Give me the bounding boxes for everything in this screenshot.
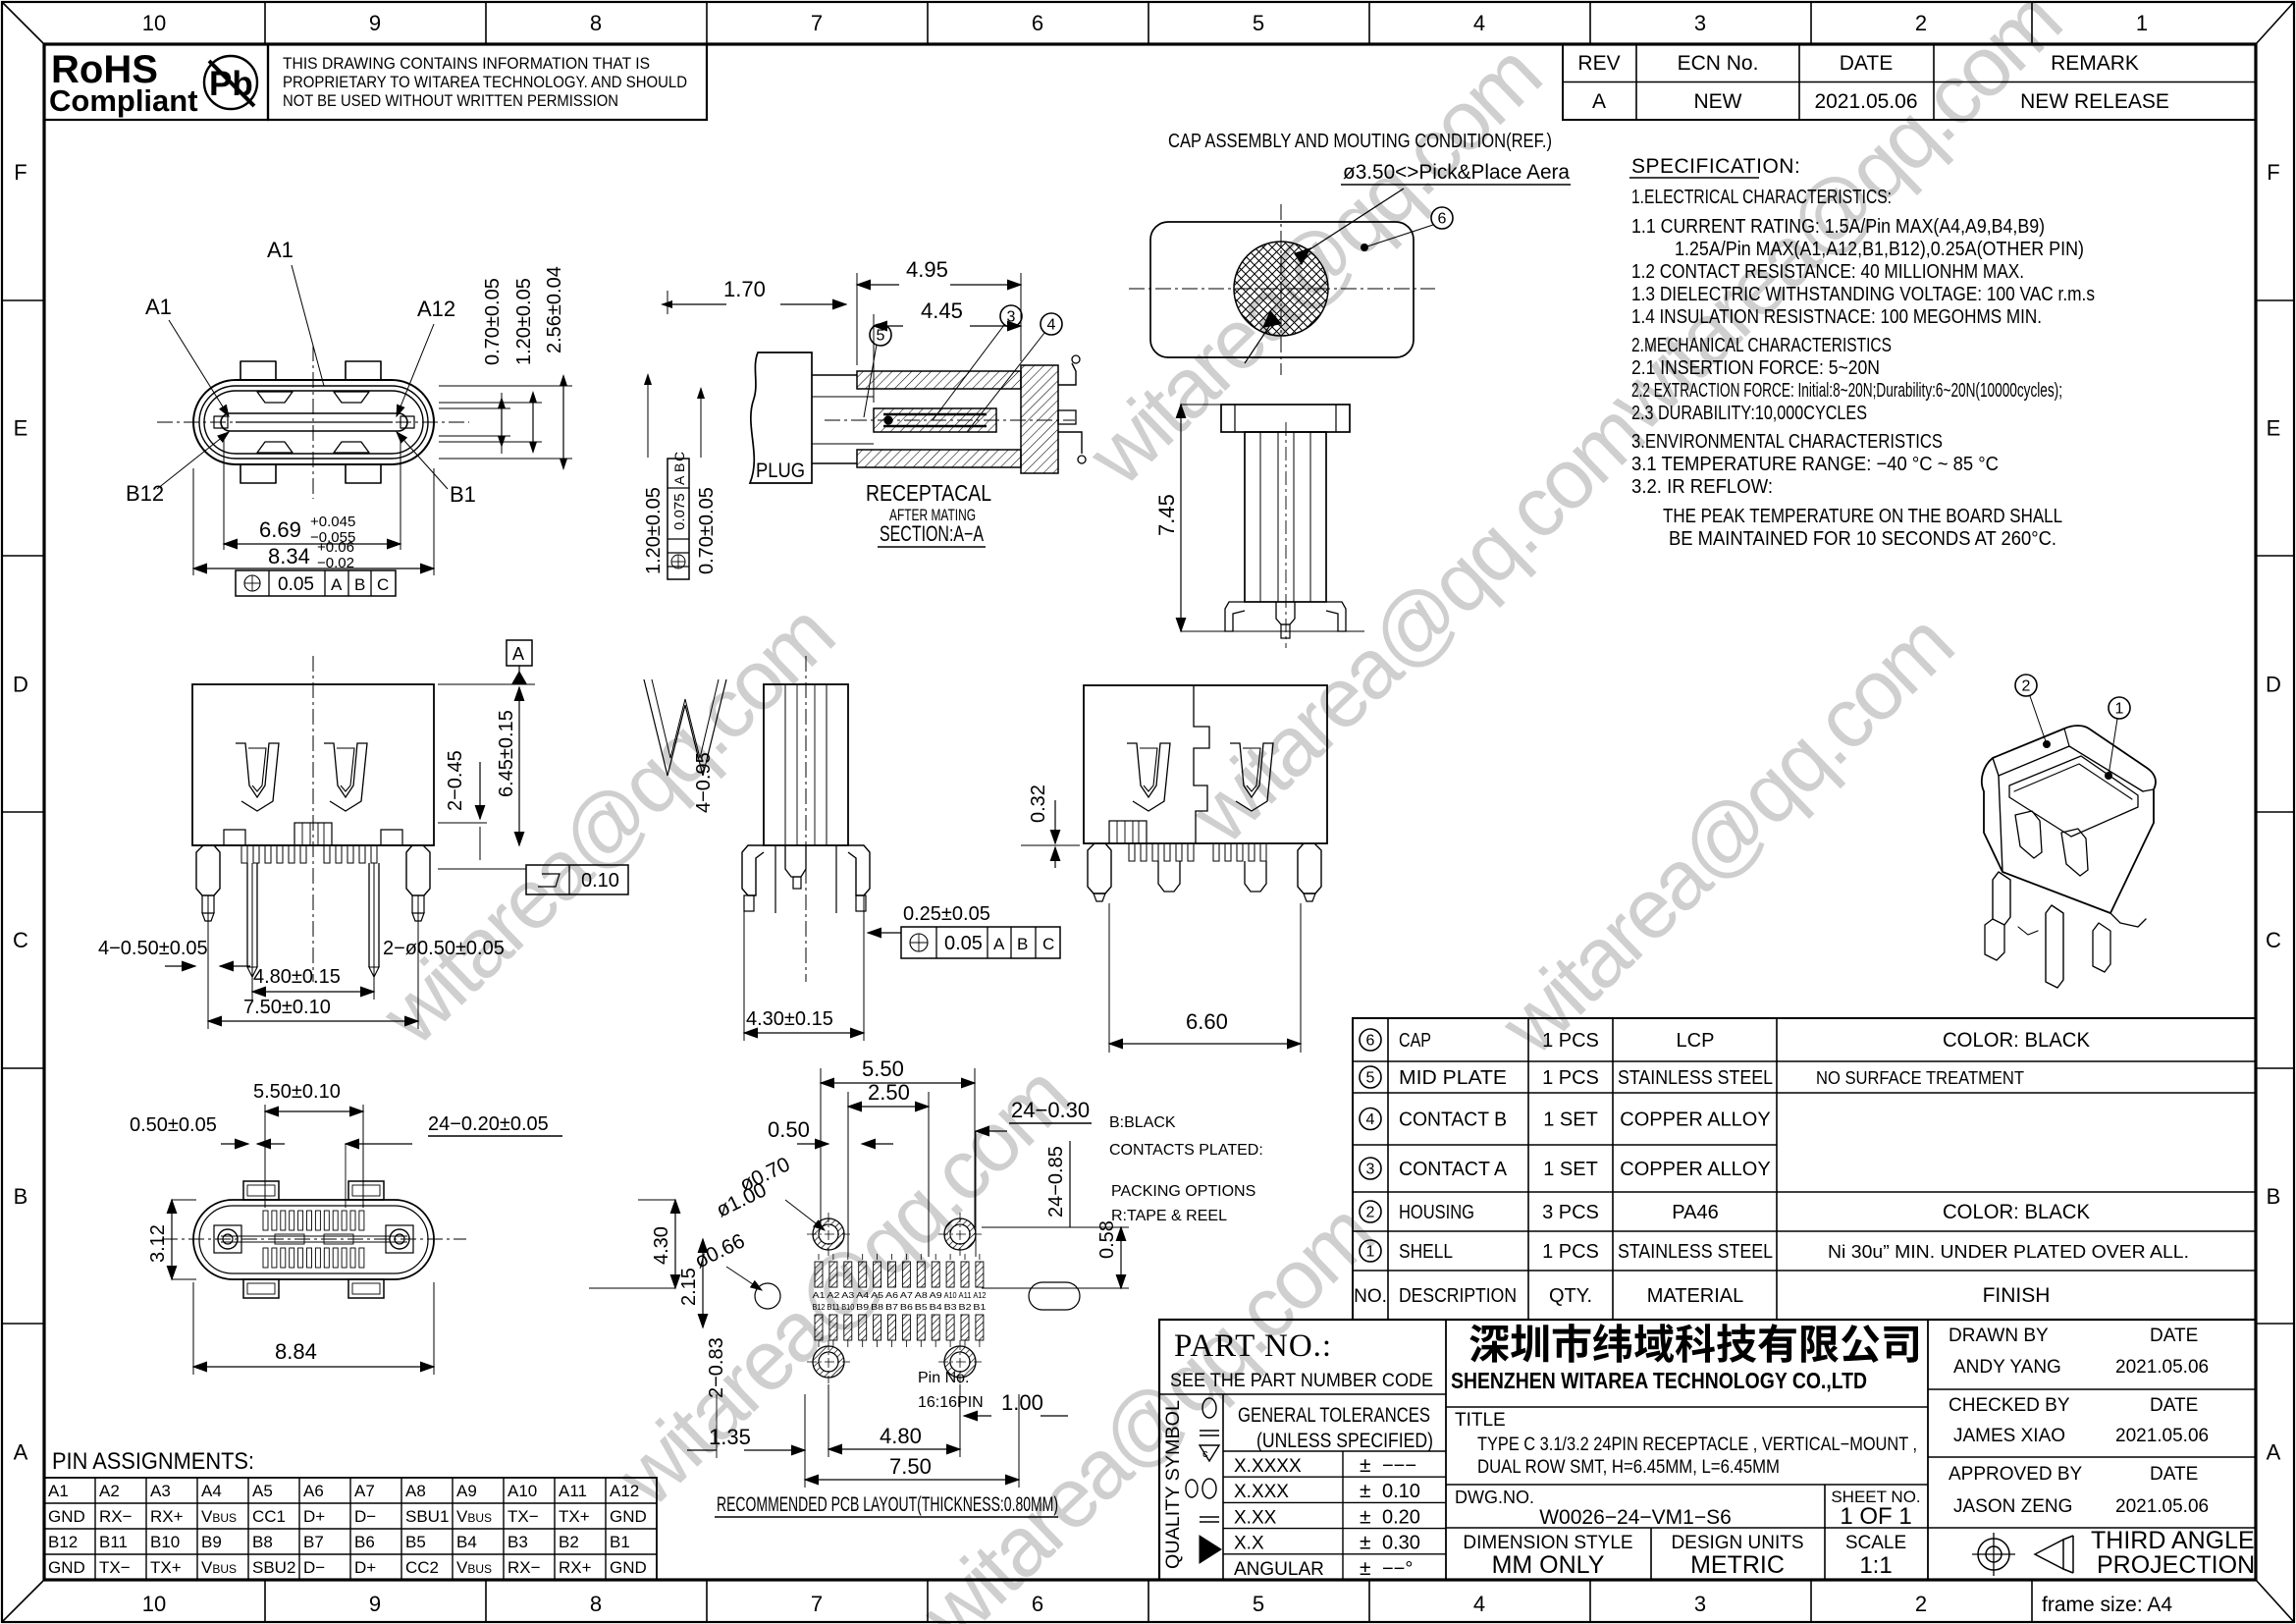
svg-text:SEE THE PART NUMBER CODE: SEE THE PART NUMBER CODE: [1170, 1370, 1433, 1391]
svg-text:2−0.83: 2−0.83: [706, 1337, 727, 1398]
svg-text:W0026−24−VM1−S6: W0026−24−VM1−S6: [1539, 1506, 1732, 1529]
svg-text:REMARK: REMARK: [2051, 52, 2139, 75]
svg-text:7: 7: [811, 1592, 823, 1616]
iso legs: [1993, 872, 2010, 925]
svg-text:c: c: [1202, 1448, 1208, 1460]
svg-text:0.05: 0.05: [278, 574, 314, 595]
svg-text:DATE: DATE: [2150, 1326, 2198, 1346]
svg-text:2: 2: [2022, 678, 2031, 695]
svg-text:5: 5: [1366, 1070, 1375, 1087]
svg-text:7.50±0.10: 7.50±0.10: [243, 997, 331, 1018]
svg-text:6.60: 6.60: [1186, 1009, 1228, 1034]
pcb hole 0.66: [755, 1283, 780, 1309]
svg-text:1: 1: [2115, 701, 2124, 718]
svg-text:24−0.30: 24−0.30: [1011, 1098, 1090, 1122]
svg-text:A: A: [671, 475, 687, 485]
balloon 2 iso: [2015, 675, 2037, 696]
svg-text:1: 1: [2136, 11, 2148, 35]
svg-text:B7: B7: [303, 1533, 324, 1551]
svg-text:0.58: 0.58: [1096, 1220, 1118, 1259]
view: front elevation with legs: [192, 684, 434, 845]
plug outline: [750, 352, 812, 483]
zone row ticks: [2, 299, 44, 301]
view: rear elevation: [1084, 685, 1327, 843]
svg-text:B12: B12: [126, 481, 164, 506]
section pins right: [1058, 363, 1076, 385]
svg-text:APPROVED BY: APPROVED BY: [1949, 1464, 2083, 1485]
svg-text:2.15: 2.15: [678, 1268, 700, 1306]
pcb mount holes hatched: [813, 1218, 844, 1250]
svg-text:+0.06: +0.06: [317, 539, 354, 556]
svg-text:A: A: [331, 575, 343, 594]
bottom comb pins: [241, 845, 247, 863]
svg-text:0.50: 0.50: [768, 1117, 810, 1142]
svg-text:1.20±0.05: 1.20±0.05: [513, 278, 535, 365]
svg-text:B:BLACK: B:BLACK: [1109, 1114, 1176, 1131]
svg-text:−0.02: −0.02: [317, 555, 354, 571]
svg-text:A7: A7: [354, 1482, 375, 1500]
svg-text:5.50: 5.50: [862, 1056, 904, 1081]
svg-text:X.XXX: X.XXX: [1234, 1482, 1289, 1502]
svg-text:8: 8: [590, 11, 602, 35]
svg-text:STAINLESS STEEL: STAINLESS STEEL: [1618, 1241, 1773, 1263]
svg-text:0.50±0.05: 0.50±0.05: [130, 1114, 217, 1136]
svg-text:A12: A12: [610, 1482, 639, 1500]
svg-text:A8: A8: [405, 1482, 426, 1500]
svg-text:4.80±0.15: 4.80±0.15: [253, 966, 341, 988]
svg-text:CONTACTS PLATED:: CONTACTS PLATED:: [1109, 1142, 1263, 1159]
svg-text:1.35: 1.35: [709, 1425, 751, 1449]
svg-text:1.25A/Pin MAX(A1,A12,B1,B12),: 1.25A/Pin MAX(A1,A12,B1,B12),0.25A(OTHER…: [1675, 239, 2084, 260]
svg-text:10: 10: [142, 1592, 166, 1616]
balloon 4: [1041, 313, 1062, 335]
svg-text:PA46: PA46: [1672, 1202, 1718, 1223]
svg-text:0.075: 0.075: [671, 493, 688, 530]
svg-text:F: F: [2267, 160, 2279, 185]
svg-text:7.45: 7.45: [1154, 494, 1179, 536]
svg-text:3 PCS: 3 PCS: [1542, 1202, 1599, 1223]
receptacle tongue hatched: [874, 408, 996, 432]
svg-text:2.2 EXTRACTION FORCE: Initi: 2.2 EXTRACTION FORCE: Initial:8~20N;Dura…: [1631, 380, 2062, 402]
contacts in section: [883, 413, 987, 415]
cap centerlines: [1129, 288, 1435, 290]
svg-text:B6: B6: [900, 1303, 914, 1312]
svg-text:B10: B10: [150, 1533, 180, 1551]
cap body: [1150, 222, 1414, 357]
datum A flag: [507, 640, 532, 666]
svg-text:COLOR: BLACK: COLOR: BLACK: [1943, 1029, 2090, 1052]
svg-text:REV: REV: [1577, 52, 1620, 75]
svg-text:A: A: [993, 935, 1005, 953]
svg-text:PLUG: PLUG: [756, 460, 805, 482]
svg-text:1.1 CURRENT RATING: 1.5A/Pi: 1.1 CURRENT RATING: 1.5A/Pin MAX(A4,A9,B…: [1631, 216, 2045, 238]
svg-text:X.X: X.X: [1234, 1534, 1264, 1554]
svg-text:CC2: CC2: [405, 1558, 439, 1577]
RoHS compliant logo box: [44, 44, 268, 120]
svg-text:DWG.NO.: DWG.NO.: [1455, 1488, 1534, 1507]
svg-text:±: ±: [1360, 1480, 1371, 1502]
comb pins: [1129, 843, 1135, 861]
long pins: [246, 863, 248, 967]
svg-text:0.05: 0.05: [944, 933, 983, 954]
svg-text:0.32: 0.32: [1028, 785, 1049, 823]
svg-text:COLOR: BLACK: COLOR: BLACK: [1943, 1201, 2090, 1223]
svg-text:+0.045: +0.045: [310, 514, 355, 530]
svg-text:GND: GND: [48, 1507, 85, 1526]
dim 8.34: [192, 468, 194, 575]
svg-text:RX−: RX−: [507, 1558, 541, 1577]
svg-text:ECN No.: ECN No.: [1678, 52, 1759, 75]
svg-text:24−0.85: 24−0.85: [1045, 1146, 1067, 1218]
svg-text:B2: B2: [559, 1533, 579, 1551]
svg-text:METRIC: METRIC: [1690, 1551, 1785, 1579]
svg-text:2: 2: [1915, 11, 1927, 35]
svg-text:B10: B10: [841, 1303, 855, 1312]
svg-text:A3: A3: [841, 1291, 855, 1300]
svg-text:B9: B9: [856, 1303, 870, 1312]
pcb oblong pad right: [1029, 1282, 1080, 1310]
svg-text:1 OF 1: 1 OF 1: [1840, 1503, 1911, 1530]
svg-text:±: ±: [1360, 1532, 1371, 1554]
svg-text:5.50±0.10: 5.50±0.10: [253, 1081, 341, 1103]
svg-text:10: 10: [142, 11, 166, 35]
svg-text:A1: A1: [48, 1482, 69, 1500]
svg-text:4−0.95: 4−0.95: [693, 752, 715, 813]
center seam: [1194, 685, 1209, 843]
centerlines bottom view: [162, 1238, 466, 1240]
svg-text:B1: B1: [610, 1533, 630, 1551]
part no box: [1159, 1393, 1446, 1395]
svg-text:B3: B3: [507, 1533, 528, 1551]
svg-text:A6: A6: [303, 1482, 324, 1500]
legs: [1088, 843, 1111, 893]
side center pin: [785, 845, 806, 877]
svg-text:2−ø0.50±0.05: 2−ø0.50±0.05: [383, 938, 505, 959]
svg-text:RECEPTACAL: RECEPTACAL: [866, 480, 991, 506]
svg-text:CC1: CC1: [252, 1507, 286, 1526]
svg-text:F: F: [14, 160, 27, 185]
svg-text:2021.05.06: 2021.05.06: [2115, 1357, 2209, 1378]
svg-text:STAINLESS STEEL: STAINLESS STEEL: [1618, 1067, 1773, 1089]
svg-text:3: 3: [1694, 11, 1706, 35]
revision table: [1563, 44, 2256, 120]
svg-text:1 SET: 1 SET: [1543, 1159, 1598, 1180]
svg-text:A12: A12: [973, 1291, 987, 1300]
svg-text:−−−: −−−: [1382, 1455, 1416, 1477]
zone column ticks: [264, 2, 266, 44]
svg-text:D: D: [13, 672, 28, 696]
svg-text:PART NO.:: PART NO.:: [1174, 1328, 1332, 1364]
svg-text:1.70: 1.70: [723, 277, 766, 301]
svg-text:1: 1: [1366, 1244, 1375, 1261]
svg-text:X.XXXX: X.XXXX: [1234, 1456, 1302, 1477]
svg-text:2−0.45: 2−0.45: [445, 750, 466, 811]
svg-text:DRAWN BY: DRAWN BY: [1949, 1326, 2049, 1346]
svg-text:9: 9: [369, 1592, 381, 1616]
svg-text:A5: A5: [871, 1291, 884, 1300]
svg-text:A: A: [14, 1440, 28, 1465]
svg-text:COPPER ALLOY: COPPER ALLOY: [1620, 1159, 1770, 1180]
svg-text:C: C: [377, 575, 389, 594]
svg-text:8.34: 8.34: [268, 544, 310, 568]
pcb pads row B: [815, 1315, 823, 1340]
svg-text:A9: A9: [456, 1482, 477, 1500]
svg-text:6: 6: [1438, 211, 1447, 228]
svg-text:2: 2: [1366, 1205, 1375, 1221]
svg-text:RX+: RX+: [150, 1507, 184, 1526]
balloon 1 iso: [2109, 697, 2130, 719]
svg-text:CAP: CAP: [1399, 1030, 1431, 1052]
svg-text:±: ±: [1360, 1454, 1371, 1477]
svg-text:SBU2: SBU2: [252, 1558, 295, 1577]
svg-text:LCP: LCP: [1677, 1030, 1715, 1052]
svg-text:NEW RELEASE: NEW RELEASE: [2020, 90, 2169, 113]
svg-text:A4: A4: [856, 1291, 870, 1300]
svg-text:B: B: [14, 1184, 28, 1209]
svg-text:THIRD ANGLE: THIRD ANGLE: [2091, 1527, 2255, 1554]
svg-text:1 SET: 1 SET: [1543, 1110, 1598, 1131]
mid legs: [1158, 861, 1180, 892]
svg-text:16:16PIN: 16:16PIN: [918, 1394, 984, 1411]
svg-text:D+: D+: [354, 1558, 376, 1577]
svg-text:0.10: 0.10: [1382, 1481, 1420, 1502]
svg-text:PACKING OPTIONS: PACKING OPTIONS: [1111, 1183, 1255, 1200]
svg-text:1.3 DIELECTRIC WITHSTANDING: 1.3 DIELECTRIC WITHSTANDING VOLTAGE: 100…: [1631, 284, 2095, 305]
svg-text:B: B: [2267, 1184, 2281, 1209]
svg-text:1.20±0.05: 1.20±0.05: [643, 487, 665, 574]
svg-text:B5: B5: [915, 1303, 929, 1312]
svg-text:2.MECHANICAL CHARACTERISTICS: 2.MECHANICAL CHARACTERISTICS: [1631, 335, 1892, 356]
svg-text:2021.05.06: 2021.05.06: [2115, 1496, 2209, 1517]
svg-text:GND: GND: [610, 1507, 647, 1526]
svg-text:CHECKED BY: CHECKED BY: [1949, 1395, 2070, 1416]
svg-text:TYPE C 3.1/3.2 24PIN RECEP: TYPE C 3.1/3.2 24PIN RECEPTACLE , VERTIC…: [1477, 1434, 1917, 1455]
receptacle hatched shell bottom: [857, 450, 1021, 467]
screw bosses: [218, 1229, 238, 1249]
svg-text:PROJECTION: PROJECTION: [2097, 1551, 2255, 1579]
svg-text:A2: A2: [99, 1482, 120, 1500]
svg-text:R:TAPE & REEL: R:TAPE & REEL: [1111, 1208, 1227, 1224]
svg-text:TX−: TX−: [99, 1558, 131, 1577]
svg-text:6.45±0.15: 6.45±0.15: [496, 710, 517, 797]
svg-text:1 PCS: 1 PCS: [1542, 1030, 1599, 1052]
svg-text:QUALITY SYMBOL: QUALITY SYMBOL: [1163, 1400, 1184, 1569]
svg-text:8: 8: [590, 1592, 602, 1616]
svg-text:ANGULAR: ANGULAR: [1234, 1559, 1324, 1580]
balloon 3: [1000, 305, 1022, 327]
datum frame 0.05 A B C: [236, 570, 396, 596]
svg-text:TX−: TX−: [507, 1507, 539, 1526]
latch windows: [236, 743, 279, 811]
svg-text:±: ±: [1360, 1557, 1371, 1580]
svg-text:4: 4: [1047, 317, 1056, 334]
svg-text:COPPER ALLOY: COPPER ALLOY: [1620, 1110, 1770, 1131]
leader from label to circle: [1298, 189, 1404, 257]
svg-text:CONTACT B: CONTACT B: [1399, 1110, 1507, 1131]
bottom tabs: [243, 1181, 279, 1200]
vertical datum frame left of section: [667, 459, 689, 579]
svg-text:DATE: DATE: [1840, 52, 1893, 75]
svg-text:7: 7: [811, 11, 823, 35]
svg-text:NO SURFACE TREATMENT: NO SURFACE TREATMENT: [1816, 1068, 2024, 1088]
svg-text:2.50: 2.50: [868, 1080, 910, 1105]
pcb pads row A: [815, 1262, 823, 1287]
svg-text:1.4 INSULATION RESISTNACE:: 1.4 INSULATION RESISTNACE: 100 MEGOHMS M…: [1631, 306, 2042, 328]
svg-text:DIMENSION STYLE: DIMENSION STYLE: [1463, 1533, 1632, 1553]
svg-text:2.56±0.04: 2.56±0.04: [544, 266, 565, 353]
svg-text:1:1: 1:1: [1859, 1552, 1892, 1579]
svg-text:±: ±: [1360, 1505, 1371, 1528]
svg-text:JASON ZENG: JASON ZENG: [1953, 1496, 2072, 1517]
svg-text:SECTION:A−A: SECTION:A−A: [880, 521, 984, 546]
svg-text:ø3.50<>Pick&Place Aera: ø3.50<>Pick&Place Aera: [1343, 161, 1570, 184]
svg-text:−−°: −−°: [1382, 1558, 1413, 1580]
svg-text:6.69: 6.69: [259, 517, 301, 542]
svg-text:MM ONLY: MM ONLY: [1492, 1551, 1605, 1579]
svg-text:A5: A5: [252, 1482, 273, 1500]
svg-text:C: C: [671, 452, 687, 461]
svg-text:1 PCS: 1 PCS: [1542, 1241, 1599, 1263]
svg-text:A1: A1: [267, 238, 294, 262]
svg-text:SCALE: SCALE: [1845, 1533, 1906, 1553]
svg-text:5: 5: [1253, 1592, 1264, 1616]
svg-text:E: E: [2267, 416, 2281, 441]
svg-text:B12: B12: [48, 1533, 78, 1551]
svg-text:MATERIAL: MATERIAL: [1647, 1285, 1744, 1307]
svg-text:0.30: 0.30: [1382, 1533, 1420, 1554]
title block: [1159, 1320, 2256, 1580]
svg-text:frame size: A4: frame size: A4: [2042, 1594, 2172, 1616]
svg-text:C: C: [1042, 935, 1054, 953]
svg-text:D: D: [2266, 672, 2281, 696]
datum frame ABC mid: [901, 927, 1060, 958]
svg-text:B3: B3: [944, 1303, 958, 1312]
svg-text:7.50: 7.50: [889, 1454, 932, 1479]
svg-text:4.45: 4.45: [921, 298, 963, 323]
svg-text:NO.: NO.: [1354, 1286, 1387, 1307]
svg-text:A1: A1: [813, 1291, 827, 1300]
svg-text:4: 4: [1473, 1592, 1485, 1616]
svg-text:TX+: TX+: [559, 1507, 590, 1526]
latch windows: [1127, 743, 1170, 811]
svg-text:2: 2: [1915, 1592, 1927, 1616]
svg-text:3.1 TEMPERATURE RANGE: −40: 3.1 TEMPERATURE RANGE: −40 °C ~ 85 °C: [1631, 454, 1999, 475]
pick place hatched circle: [1234, 242, 1328, 336]
svg-text:8.84: 8.84: [275, 1339, 317, 1364]
svg-text:BE MAINTAINED FOR 10 SECON: BE MAINTAINED FOR 10 SECONDS AT 260°C.: [1669, 528, 2056, 550]
svg-text:C: C: [13, 928, 28, 952]
svg-text:2021.05.06: 2021.05.06: [2115, 1426, 2209, 1446]
svg-text:SHENZHEN WITAREA TECHNOLOGY: SHENZHEN WITAREA TECHNOLOGY CO.,LTD: [1451, 1368, 1867, 1393]
svg-text:B7: B7: [885, 1303, 899, 1312]
svg-text:QTY.: QTY.: [1549, 1285, 1592, 1307]
svg-text:B: B: [671, 463, 687, 472]
svg-text:A11: A11: [559, 1482, 587, 1500]
svg-text:6: 6: [1366, 1033, 1375, 1050]
svg-text:B9: B9: [201, 1533, 222, 1551]
svg-text:A6: A6: [885, 1291, 899, 1300]
right big leg: [406, 845, 430, 895]
balloon 6: [1431, 207, 1453, 229]
legs: [1225, 602, 1245, 631]
svg-text:Ni 30u” MIN. UNDER PLATED: Ni 30u” MIN. UNDER PLATED OVER ALL.: [1828, 1242, 2189, 1262]
svg-text:RX−: RX−: [99, 1507, 133, 1526]
svg-text:HOUSING: HOUSING: [1399, 1202, 1474, 1223]
svg-text:3: 3: [1366, 1162, 1375, 1178]
title box: [1927, 1320, 1929, 1580]
svg-text:A: A: [512, 644, 524, 664]
receptacle hatched shell top: [857, 371, 1021, 389]
svg-text:SHELL: SHELL: [1399, 1241, 1453, 1263]
svg-text:B11: B11: [99, 1533, 128, 1551]
pad rows: [263, 1211, 268, 1230]
balloon 5: [870, 324, 891, 346]
svg-text:0.25±0.05: 0.25±0.05: [903, 903, 990, 925]
arrows to leg: [165, 965, 195, 967]
iso latches: [2015, 811, 2042, 858]
svg-text:B1: B1: [973, 1303, 987, 1312]
svg-text:B2: B2: [959, 1303, 973, 1312]
center bar: [221, 1235, 407, 1237]
svg-text:A11: A11: [959, 1291, 973, 1300]
proprietary note box: [268, 44, 707, 120]
svg-text:THIS DRAWING CONTAINS INFORMAT: THIS DRAWING CONTAINS INFORMATION THAT I…: [283, 54, 650, 73]
receptacle back block hatched: [1021, 365, 1058, 473]
svg-text:A: A: [1592, 90, 1606, 113]
flatness frame 0.10: [526, 865, 628, 894]
svg-text:B11: B11: [827, 1303, 840, 1312]
quality symbol column: [1222, 1394, 1224, 1580]
svg-text:CONTACT A: CONTACT A: [1399, 1159, 1508, 1180]
svg-text:B4: B4: [930, 1303, 943, 1312]
svg-text:DATE: DATE: [2150, 1395, 2198, 1416]
svg-text:THE PEAK TEMPERATURE ON TH: THE PEAK TEMPERATURE ON THE BOARD SHALL: [1663, 506, 2062, 527]
svg-text:B5: B5: [405, 1533, 426, 1551]
svg-text:CAP ASSEMBLY AND MOUTING C: CAP ASSEMBLY AND MOUTING CONDITION(REF.): [1168, 131, 1552, 152]
svg-text:C: C: [2266, 928, 2281, 952]
svg-text:B12: B12: [813, 1303, 827, 1312]
svg-text:(UNLESS SPECIFIED): (UNLESS SPECIFIED): [1256, 1430, 1433, 1452]
svg-text:DESCRIPTION: DESCRIPTION: [1399, 1285, 1517, 1307]
view: isometric 3d: [1982, 726, 2156, 988]
dimension style boxes: [1650, 1528, 1652, 1580]
side legs: [742, 845, 764, 895]
svg-text:A3: A3: [150, 1482, 171, 1500]
svg-text:6: 6: [1032, 11, 1043, 35]
svg-text:0.70±0.05: 0.70±0.05: [696, 487, 718, 574]
svg-text:2.3 DURABILITY:10,000CYCLES: 2.3 DURABILITY:10,000CYCLES: [1631, 403, 1867, 424]
svg-text:B1: B1: [450, 482, 476, 507]
svg-text:2.1 INSERTION FORCE: 5~20N: 2.1 INSERTION FORCE: 5~20N: [1631, 357, 1880, 379]
svg-text:RX+: RX+: [559, 1558, 592, 1577]
svg-text:4.30: 4.30: [651, 1226, 672, 1265]
svg-text:B: B: [1017, 935, 1028, 953]
svg-text:1.ELECTRICAL CHARACTERISTICS:: 1.ELECTRICAL CHARACTERISTICS:: [1631, 187, 1892, 208]
svg-text:1.00: 1.00: [1001, 1390, 1043, 1415]
svg-text:PIN ASSIGNMENTS:: PIN ASSIGNMENTS:: [52, 1448, 254, 1475]
svg-text:4.30±0.15: 4.30±0.15: [746, 1008, 833, 1030]
svg-text:NOT BE USED WITHOUT WRITTEN PE: NOT BE USED WITHOUT WRITTEN PERMISSION: [283, 91, 618, 110]
svg-text:9: 9: [369, 11, 381, 35]
left big leg: [196, 845, 220, 895]
view: connector face (top-left): [193, 361, 434, 483]
svg-text:GENERAL TOLERANCES: GENERAL TOLERANCES: [1238, 1404, 1430, 1427]
svg-text:A2: A2: [827, 1291, 840, 1300]
svg-text:NEW: NEW: [1694, 90, 1742, 113]
third angle projection symbol: [1978, 1539, 2009, 1570]
svg-text:GND: GND: [610, 1558, 647, 1577]
Pb crossed circle: [204, 56, 257, 109]
